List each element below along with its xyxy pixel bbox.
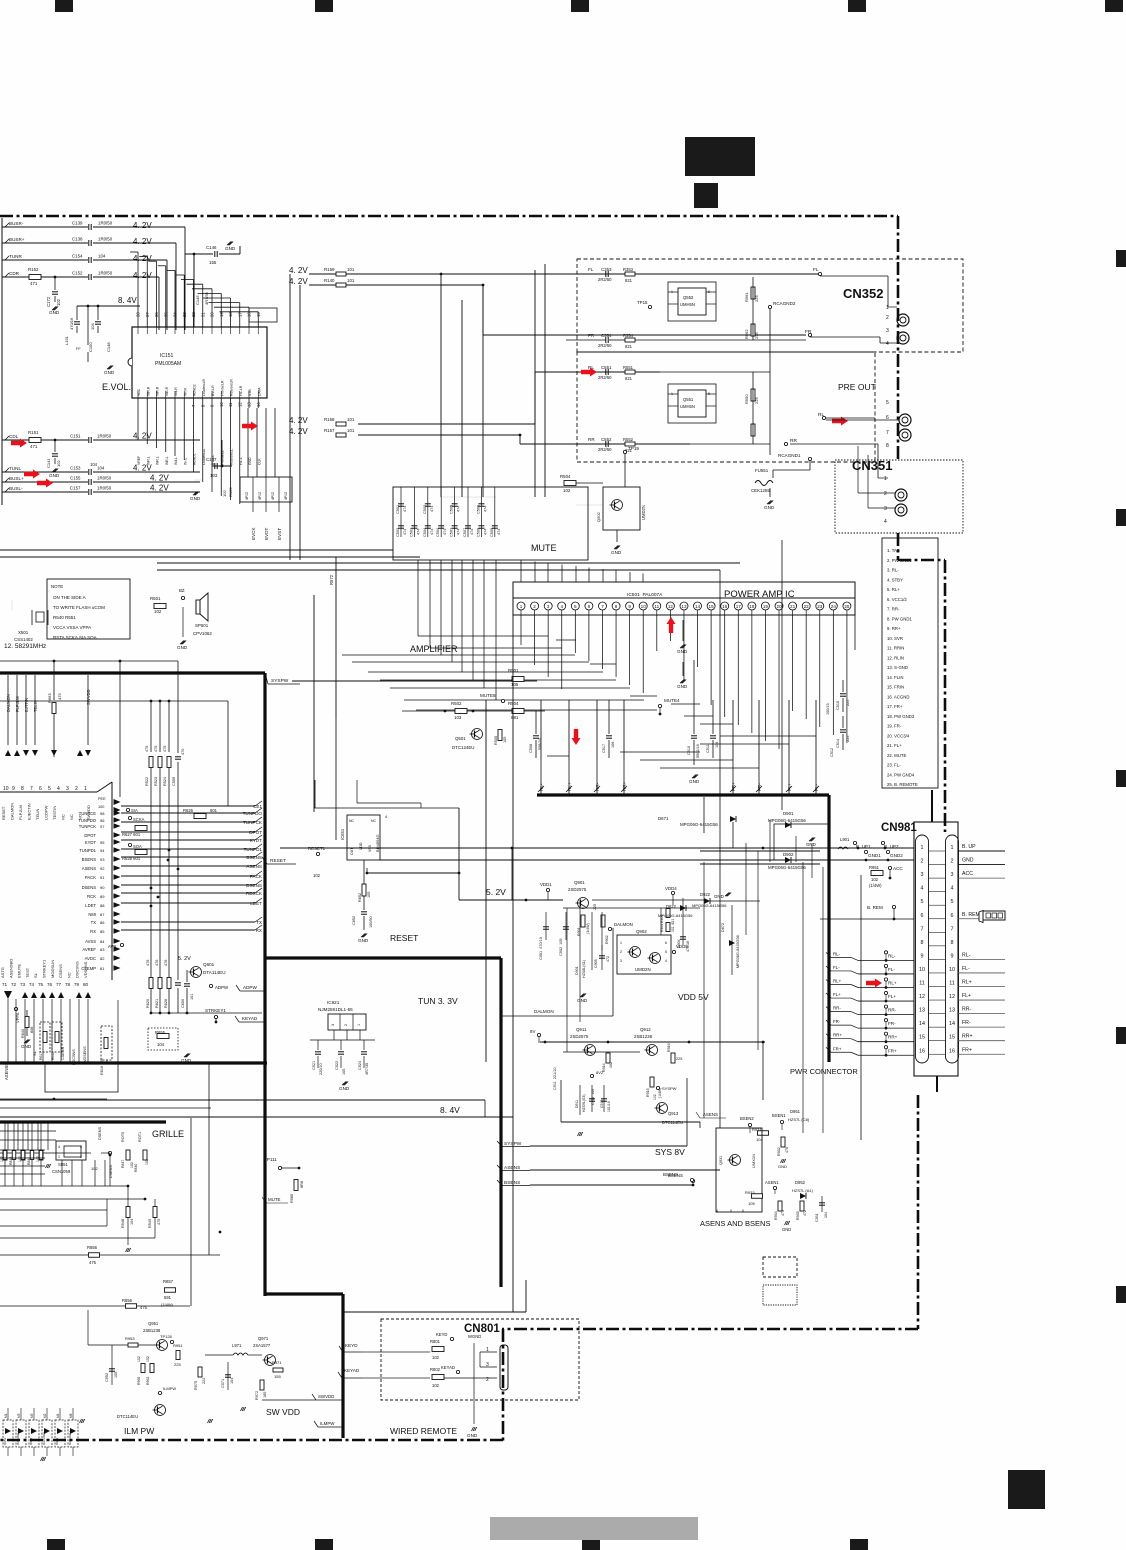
svg-text:R501: R501 [508, 668, 519, 673]
svg-text:102: 102 [432, 1383, 440, 1388]
svg-text:5: 5 [574, 604, 577, 609]
svg-text:4: 4 [951, 886, 954, 892]
svg-text:1R0/50: 1R0/50 [98, 271, 113, 276]
svg-text:EJTTIN: EJTTIN [24, 698, 29, 712]
svg-text:EJECTIN: EJECTIN [27, 803, 32, 820]
svg-text:FU551: FU551 [755, 468, 769, 473]
svg-text:6: 6 [921, 913, 924, 919]
svg-text:FIL.LR: FIL.LR [239, 385, 243, 396]
svg-text:82: 82 [100, 956, 105, 961]
svg-text:95: 95 [100, 840, 105, 845]
svg-text:TUNPCE: TUNPCE [79, 811, 96, 816]
svg-text:8: 8 [886, 443, 889, 449]
svg-text:12: 12 [237, 402, 242, 407]
svg-text:2SA1577: 2SA1577 [253, 1343, 271, 1348]
svg-text:C141: C141 [46, 458, 51, 468]
svg-text:GND: GND [225, 246, 236, 251]
svg-text:7: 7 [951, 926, 954, 932]
svg-text:8: 8 [615, 604, 618, 609]
svg-text:FL+: FL+ [833, 992, 841, 997]
svg-text:17. FR+: 17. FR+ [887, 704, 903, 709]
svg-text:CEK1255: CEK1255 [751, 488, 770, 493]
svg-text:474: 474 [483, 529, 487, 535]
svg-text:C148: C148 [106, 342, 111, 352]
svg-text:IN4.L: IN4.L [174, 457, 178, 465]
svg-text:4. 2V: 4. 2V [289, 427, 308, 436]
svg-text:RR+: RR+ [833, 1033, 842, 1038]
svg-text:SWVDD: SWVDD [318, 1394, 334, 1399]
svg-text:R504: R504 [560, 474, 571, 479]
svg-text:10: 10 [641, 604, 647, 609]
svg-text:102: 102 [563, 488, 571, 493]
svg-text:EVCK: EVCK [251, 527, 256, 540]
svg-text:IN4.R: IN4.R [174, 387, 178, 396]
svg-text:4: 4 [57, 786, 60, 792]
svg-text:19: 19 [763, 604, 769, 609]
svg-text:9: 9 [921, 953, 924, 959]
svg-text:100/15: 100/15 [826, 703, 830, 715]
svg-text:ASENS: ASENS [82, 866, 96, 871]
svg-text:C912 106: C912 106 [591, 1089, 595, 1105]
svg-text:R549: R549 [148, 1219, 152, 1228]
svg-text:IN-.R: IN-.R [183, 388, 187, 396]
svg-text:MPG06G-6415G56: MPG06G-6415G56 [680, 822, 718, 827]
svg-text:CPV1062: CPV1062 [193, 631, 212, 636]
svg-text:5: 5 [951, 899, 954, 905]
svg-text:DSCSNS: DSCSNS [72, 1049, 76, 1065]
svg-text:23: 23 [817, 604, 823, 609]
svg-text:25: 25 [844, 604, 850, 609]
svg-text:BSEN1: BSEN1 [772, 1113, 786, 1118]
svg-text:R617: R617 [39, 1052, 43, 1060]
svg-text:FR-: FR- [962, 1020, 971, 1026]
svg-text:FR+: FR+ [833, 1046, 842, 1051]
svg-text:14: 14 [919, 1021, 925, 1027]
svg-text:TELIN: TELIN [35, 809, 40, 820]
svg-text:1: 1 [921, 845, 924, 851]
svg-text:RESET1: RESET1 [308, 846, 326, 851]
svg-text:106: 106 [611, 742, 615, 748]
svg-text:225: 225 [754, 295, 759, 302]
svg-text:476: 476 [146, 960, 150, 966]
svg-text:6: 6 [665, 941, 667, 945]
svg-text:IC501 PAL007A: IC501 PAL007A [627, 592, 663, 598]
svg-text:C512: C512 [830, 748, 834, 757]
svg-text:BUSR+: BUSR+ [9, 237, 25, 242]
svg-text:15: 15 [709, 604, 715, 609]
svg-text:474: 474 [430, 506, 434, 512]
svg-text:D955: D955 [55, 1437, 59, 1445]
svg-text:WGND: WGND [468, 1334, 481, 1339]
svg-text:7: 7 [921, 926, 924, 932]
svg-text:C501: C501 [396, 505, 400, 514]
svg-text:98: 98 [100, 811, 105, 816]
svg-text:C904: C904 [677, 939, 681, 948]
svg-text:R801: R801 [430, 1339, 441, 1344]
svg-text:SL: SL [33, 972, 38, 978]
svg-text:(1/4W): (1/4W) [869, 883, 882, 888]
svg-text:2SD2575: 2SD2575 [568, 887, 587, 892]
svg-text:4P0Z: 4P0Z [245, 492, 249, 500]
svg-text:14: 14 [949, 1021, 955, 1027]
svg-text:ASENSBO: ASENSBO [8, 959, 13, 978]
svg-text:8: 8 [21, 786, 24, 792]
svg-text:STRKEY1: STRKEY1 [205, 1008, 226, 1013]
svg-text:5: 5 [708, 392, 710, 396]
svg-text:10: 10 [949, 967, 955, 973]
svg-text:L901: L901 [840, 837, 850, 842]
svg-text:HZS7L (A1): HZS7L (A1) [792, 1188, 814, 1193]
svg-text:RESET: RESET [390, 933, 418, 943]
svg-text:MODSLIN: MODSLIN [50, 960, 55, 978]
svg-text:C971: C971 [221, 1379, 225, 1388]
svg-text:16. ACGND: 16. ACGND [887, 694, 909, 699]
svg-text:105: 105 [511, 682, 519, 687]
svg-text:10: 10 [3, 786, 9, 792]
svg-text:FL-: FL- [888, 967, 895, 972]
svg-text:105: 105 [748, 1201, 755, 1206]
svg-text:RESET: RESET [270, 858, 286, 864]
svg-text:821: 821 [625, 376, 633, 381]
svg-text:RR-: RR- [833, 1006, 841, 1011]
svg-text:103: 103 [454, 715, 462, 720]
svg-text:R951: R951 [173, 1343, 183, 1348]
svg-text:6: 6 [588, 604, 591, 609]
svg-text:83: 83 [100, 947, 105, 952]
svg-text:101: 101 [347, 428, 355, 433]
svg-text:ASENS: ASENS [703, 1112, 718, 1117]
svg-text:C507: C507 [450, 528, 454, 537]
svg-text:C503: C503 [409, 528, 413, 537]
svg-text:FR+: FR+ [888, 1048, 897, 1053]
svg-text:101: 101 [347, 267, 355, 272]
svg-text:E.VOL.: E.VOL. [102, 382, 131, 392]
svg-text:RSTA SCKA SIA SOA: RSTA SCKA SIA SOA [53, 635, 97, 640]
svg-text:2SB1238: 2SB1238 [143, 1328, 161, 1333]
svg-text:EMUTE: EMUTE [17, 964, 22, 978]
svg-text:471: 471 [30, 444, 38, 449]
svg-text:2SB1238: 2SB1238 [634, 1034, 653, 1039]
svg-text:1R0/50: 1R0/50 [97, 434, 112, 439]
svg-text:808: 808 [30, 1027, 34, 1033]
svg-text:1: 1 [671, 392, 673, 396]
svg-text:CN352: CN352 [843, 286, 883, 301]
svg-text:474: 474 [403, 506, 407, 512]
svg-text:KEYAD: KEYAD [242, 1016, 258, 1021]
svg-text:5: 5 [48, 786, 51, 792]
svg-text:M3: M3 [17, 1413, 21, 1418]
svg-text:GND: GND [806, 842, 816, 847]
svg-text:KYDT: KYDT [250, 838, 262, 843]
svg-text:13. S-GND: 13. S-GND [887, 665, 908, 670]
svg-text:GND: GND [778, 1164, 787, 1169]
svg-text:475: 475 [157, 1219, 161, 1225]
svg-text:RR: RR [790, 438, 797, 444]
svg-text:R548: R548 [121, 1219, 125, 1228]
svg-text:12. 58291MHz: 12. 58291MHz [4, 643, 46, 650]
svg-text:13: 13 [919, 1008, 925, 1014]
svg-text:4: 4 [921, 886, 924, 892]
svg-text:IC921: IC921 [327, 1000, 340, 1005]
svg-text:R985: R985 [290, 1194, 294, 1203]
svg-text:DSENS: DSENS [109, 1164, 113, 1178]
svg-text:R655: R655 [155, 1030, 166, 1035]
svg-text:D951: D951 [790, 1109, 801, 1114]
svg-text:DTA114EU: DTA114EU [203, 970, 226, 975]
svg-text:INR.R: INR.R [146, 386, 150, 396]
svg-text:5: 5 [665, 950, 667, 954]
svg-text:C152: C152 [72, 271, 83, 276]
svg-text:CDR: CDR [9, 271, 20, 276]
svg-text:C502: C502 [423, 505, 427, 514]
svg-text:3: 3 [884, 506, 887, 512]
svg-text:3. RL-: 3. RL- [887, 568, 899, 573]
svg-text:KEYD: KEYD [345, 1343, 358, 1348]
svg-text:10. SVR: 10. SVR [887, 636, 903, 641]
svg-text:C154: C154 [72, 254, 83, 259]
svg-text:77: 77 [56, 982, 62, 987]
svg-text:KYDT: KYDT [85, 840, 97, 845]
svg-text:1: 1 [357, 1024, 361, 1026]
svg-text:RL+: RL+ [962, 980, 972, 986]
svg-text:PRE OUT: PRE OUT [838, 382, 876, 392]
svg-text:UMD2N: UMD2N [635, 967, 651, 972]
svg-text:9: 9 [628, 604, 631, 609]
svg-text:TP111: TP111 [264, 1157, 277, 1162]
svg-text:8. 4V: 8. 4V [440, 1105, 460, 1115]
svg-text:C153: C153 [70, 466, 81, 471]
svg-text:3: 3 [66, 786, 69, 792]
svg-text:TELIN: TELIN [33, 700, 38, 712]
svg-text:C600: C600 [181, 999, 185, 1008]
svg-text:D954: D954 [29, 1437, 33, 1445]
svg-text:R550: R550 [744, 394, 749, 404]
svg-text:RR+: RR+ [622, 781, 627, 791]
svg-text:R933: R933 [745, 1190, 755, 1195]
svg-text:220/10: 220/10 [319, 1063, 323, 1075]
svg-text:TP15: TP15 [637, 300, 648, 305]
svg-text:RL-: RL- [833, 951, 841, 956]
svg-text:474: 474 [443, 529, 447, 535]
svg-text:8R8: 8R8 [300, 1181, 304, 1188]
svg-text:DALMON: DALMON [6, 694, 11, 712]
svg-text:9: 9 [951, 953, 954, 959]
svg-text:11: 11 [228, 402, 233, 407]
svg-text:102: 102 [609, 1062, 613, 1068]
svg-text:HZS8L(S1): HZS8L(S1) [582, 960, 586, 978]
svg-text:GND: GND [104, 370, 115, 375]
svg-text:MPG06G-6415G56: MPG06G-6415G56 [736, 935, 740, 968]
svg-text:104: 104 [157, 1042, 165, 1047]
svg-text:R663: R663 [47, 693, 52, 703]
svg-text:C905: C905 [594, 959, 598, 968]
svg-text:UMH5N: UMH5N [680, 302, 695, 307]
svg-text:476: 476 [164, 960, 168, 966]
svg-text:BSENS: BSENS [82, 857, 96, 862]
svg-text:R855: R855 [122, 1298, 133, 1303]
svg-text:CSENS: CSENS [58, 964, 63, 978]
svg-text:474: 474 [497, 529, 501, 535]
svg-text:4. 2V: 4. 2V [289, 277, 308, 286]
svg-text:4: 4 [716, 1209, 718, 1213]
svg-text:BD4854G: BD4854G [375, 834, 380, 852]
svg-text:1R0/50: 1R0/50 [97, 486, 112, 491]
svg-text:SCKA: SCKA [133, 817, 145, 822]
svg-text:1R0/50: 1R0/50 [97, 476, 112, 481]
svg-text:R621: R621 [155, 999, 159, 1008]
svg-text:R640: R640 [21, 1029, 25, 1038]
svg-text:R505: R505 [494, 736, 498, 745]
svg-text:HZS7L (C8): HZS7L (C8) [788, 1117, 810, 1122]
svg-text:FR+: FR+ [962, 1047, 972, 1053]
svg-text:5502/16: 5502/16 [696, 744, 700, 758]
svg-text:TUNR: TUNR [9, 254, 22, 259]
svg-text:C952: C952 [105, 1373, 109, 1382]
svg-text:R935: R935 [796, 1211, 800, 1220]
svg-text:Q552: Q552 [683, 295, 694, 300]
svg-text:SYSPW: SYSPW [662, 1086, 677, 1091]
svg-text:5. RL+: 5. RL+ [887, 587, 900, 592]
svg-text:102: 102 [222, 490, 227, 497]
svg-text:Q931: Q931 [719, 1156, 723, 1165]
svg-text:472: 472 [606, 956, 610, 962]
svg-text:AVREF: AVREF [82, 947, 96, 952]
svg-text:225: 225 [754, 397, 759, 404]
svg-text:L151: L151 [64, 335, 69, 345]
svg-text:DATA: DATA [257, 387, 261, 396]
svg-text:GND: GND [677, 684, 688, 689]
svg-text:DSENS: DSENS [246, 883, 262, 888]
svg-text:DALMON: DALMON [10, 803, 15, 820]
svg-text:104: 104 [715, 742, 719, 748]
svg-text:225: 225 [174, 1362, 181, 1367]
svg-text:R502: R502 [451, 701, 462, 706]
svg-text:POWER AMP IC: POWER AMP IC [724, 589, 795, 600]
svg-text:RR: RR [588, 437, 595, 442]
svg-text:2: 2 [75, 786, 78, 792]
svg-text:152: 152 [146, 1356, 150, 1362]
svg-text:12: 12 [949, 994, 955, 1000]
svg-text:FLPJLM: FLPJLM [15, 696, 20, 712]
svg-text:10: 10 [919, 967, 925, 973]
svg-text:474: 474 [470, 529, 474, 535]
svg-text:475: 475 [781, 1210, 785, 1216]
svg-text:R155: R155 [228, 487, 233, 497]
svg-text:17: 17 [736, 604, 742, 609]
svg-text:STRKEY1: STRKEY1 [42, 959, 47, 978]
svg-text:GRILLE: GRILLE [152, 1129, 184, 1139]
svg-text:R540 R551: R540 R551 [53, 615, 76, 620]
svg-text:87: 87 [100, 912, 105, 917]
svg-text:R522: R522 [145, 777, 149, 786]
svg-text:GND: GND [21, 1044, 32, 1049]
svg-text:Q913: Q913 [668, 1111, 679, 1116]
svg-text:4. 2V: 4. 2V [133, 271, 152, 280]
svg-text:D672: D672 [721, 923, 725, 932]
svg-text:C139: C139 [72, 221, 83, 226]
svg-text:D952: D952 [795, 1180, 806, 1185]
svg-text:TX: TX [91, 920, 97, 925]
svg-text:GND: GND [248, 457, 252, 465]
svg-text:C901 470/10: C901 470/10 [539, 937, 543, 960]
svg-text:92: 92 [100, 866, 105, 871]
svg-text:474: 474 [403, 529, 407, 535]
svg-text:ACC: ACC [962, 871, 973, 877]
svg-text:105: 105 [367, 892, 371, 898]
svg-text:101/16: 101/16 [607, 1101, 611, 1112]
svg-text:C172: C172 [46, 296, 51, 307]
svg-text:RR+: RR+ [888, 1035, 898, 1040]
svg-text:4: 4 [385, 815, 387, 819]
svg-text:15. FRIN: 15. FRIN [887, 685, 904, 690]
svg-text:L971: L971 [232, 1343, 242, 1348]
svg-text:SL: SL [32, 1050, 37, 1056]
svg-text:C509: C509 [490, 528, 494, 537]
svg-text:R962: R962 [146, 1377, 150, 1385]
svg-text:12. RLIN: 12. RLIN [887, 655, 904, 660]
svg-text:474: 474 [416, 529, 420, 535]
svg-text:104: 104 [824, 1212, 828, 1218]
svg-text:24. PW GND4: 24. PW GND4 [887, 772, 915, 777]
svg-text:165: 165 [263, 1392, 267, 1398]
svg-text:8. PW GND1: 8. PW GND1 [887, 616, 912, 621]
svg-text:13: 13 [681, 604, 687, 609]
svg-text:VDD4: VDD4 [665, 886, 677, 891]
svg-text:105: 105 [114, 1372, 118, 1378]
svg-text:821: 821 [625, 278, 633, 283]
svg-text:RCK: RCK [87, 894, 96, 899]
svg-text:8V: 8V [530, 1029, 535, 1034]
svg-text:D953: D953 [3, 1437, 7, 1445]
svg-text:2R2/50: 2R2/50 [598, 447, 612, 452]
svg-text:R562: R562 [744, 329, 749, 339]
svg-text:104: 104 [130, 1219, 134, 1225]
svg-text:NC: NC [371, 819, 377, 823]
svg-text:475: 475 [145, 746, 149, 752]
svg-text:2SD2575: 2SD2575 [570, 1034, 589, 1039]
svg-text:WIRED REMOTE: WIRED REMOTE [390, 1426, 457, 1436]
svg-text:6: 6 [39, 786, 42, 792]
svg-text:Rearew.LR: Rearew.LR [230, 379, 234, 396]
svg-text:0: 0 [730, 1209, 732, 1213]
svg-text:GND2: GND2 [890, 853, 903, 858]
svg-text:GND: GND [49, 473, 60, 478]
svg-text:4: 4 [560, 604, 563, 609]
svg-text:AVR: AVR [108, 944, 116, 949]
svg-text:Loudew.LR: Loudew.LR [202, 378, 206, 396]
svg-text:71: 71 [2, 982, 8, 987]
svg-text:86: 86 [100, 920, 105, 925]
svg-text:225: 225 [754, 332, 759, 339]
svg-text:RCAGND2: RCAGND2 [773, 301, 796, 306]
svg-text:85: 85 [100, 929, 105, 934]
svg-text:1R0/50: 1R0/50 [98, 221, 113, 226]
svg-text:9: 9 [12, 786, 15, 792]
svg-text:ASENBO: ASENBO [4, 1062, 9, 1080]
svg-text:89: 89 [100, 894, 105, 899]
svg-text:Q911: Q911 [576, 1027, 587, 1032]
svg-text:3: 3 [331, 1024, 335, 1026]
svg-text:R551: R551 [623, 365, 634, 370]
svg-text:M2: M2 [43, 1413, 47, 1418]
svg-text:RR+: RR+ [962, 1034, 973, 1040]
svg-text:20. VCC3/4: 20. VCC3/4 [887, 733, 910, 738]
svg-text:TUNPD1: TUNPD1 [244, 847, 263, 852]
svg-text:225: 225 [846, 736, 850, 742]
svg-text:RR-: RR- [888, 1008, 897, 1013]
svg-text:FL+: FL+ [888, 994, 896, 999]
svg-text:FLPJLM: FLPJLM [18, 805, 23, 820]
